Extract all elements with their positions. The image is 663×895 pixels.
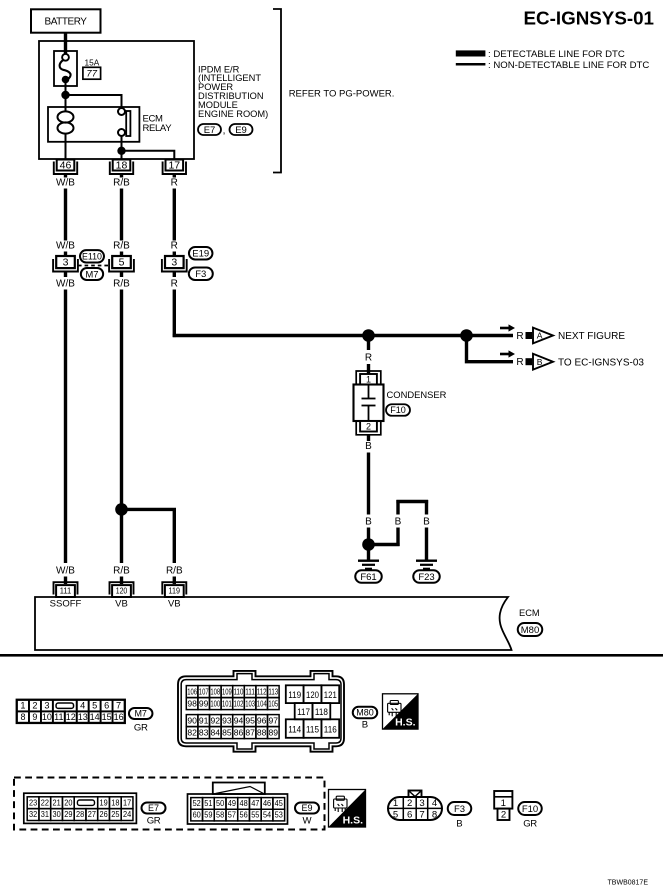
svg-text:B: B (423, 517, 430, 528)
svg-text:120: 120 (116, 586, 128, 596)
svg-text:106: 106 (187, 687, 197, 697)
svg-text:57: 57 (228, 810, 236, 820)
svg-text:17: 17 (123, 797, 131, 807)
svg-text:R/B: R/B (113, 566, 130, 577)
svg-text:25: 25 (111, 809, 119, 819)
svg-text:3: 3 (44, 700, 49, 710)
svg-text:54: 54 (263, 810, 271, 820)
svg-text:REFER TO PG-POWER.: REFER TO PG-POWER. (289, 89, 395, 100)
svg-text:98: 98 (187, 699, 197, 709)
svg-text:R/B: R/B (113, 279, 130, 290)
svg-text:F3: F3 (195, 269, 206, 280)
svg-text:77: 77 (86, 69, 97, 80)
svg-text:R: R (365, 353, 372, 364)
svg-text:GR: GR (134, 723, 148, 734)
svg-text:B: B (456, 819, 462, 830)
svg-text:9: 9 (32, 712, 37, 722)
svg-text:SSOFF: SSOFF (50, 599, 82, 610)
svg-text:27: 27 (88, 809, 96, 819)
svg-text:GR: GR (147, 816, 161, 827)
svg-text:16: 16 (114, 712, 124, 722)
svg-text:E9: E9 (235, 125, 247, 136)
svg-text:2: 2 (366, 421, 371, 431)
svg-text:M7: M7 (85, 269, 98, 280)
svg-text:3: 3 (63, 257, 69, 269)
svg-text:118: 118 (315, 707, 328, 717)
svg-text:115: 115 (306, 725, 319, 735)
svg-text:F3: F3 (454, 804, 465, 815)
svg-text:84: 84 (211, 728, 221, 738)
svg-text:H.S.: H.S. (343, 815, 364, 827)
svg-text:E9: E9 (301, 803, 312, 813)
svg-text:116: 116 (324, 725, 337, 735)
svg-text:R: R (516, 331, 523, 342)
svg-text:49: 49 (228, 798, 236, 808)
svg-text:111: 111 (245, 687, 255, 697)
svg-text:2: 2 (407, 798, 412, 809)
svg-text:1: 1 (393, 798, 398, 809)
svg-text:101: 101 (222, 699, 232, 709)
svg-text:R/B: R/B (113, 178, 130, 189)
svg-text:NEXT FIGURE: NEXT FIGURE (558, 331, 625, 342)
svg-text:W/B: W/B (56, 178, 75, 189)
svg-text:R: R (171, 178, 178, 189)
svg-text:12: 12 (66, 712, 76, 722)
svg-text:,: , (223, 126, 226, 137)
svg-text:6: 6 (104, 700, 109, 710)
svg-text:99: 99 (199, 699, 209, 709)
svg-text:F61: F61 (360, 572, 376, 583)
svg-text:1: 1 (501, 798, 506, 809)
svg-text:24: 24 (123, 809, 131, 819)
svg-text:11: 11 (54, 712, 63, 722)
svg-text:E19: E19 (192, 249, 209, 260)
svg-text:53: 53 (275, 810, 283, 820)
svg-text:82: 82 (187, 728, 197, 738)
svg-text:: DETECTABLE LINE FOR DTC: : DETECTABLE LINE FOR DTC (488, 49, 625, 60)
svg-text:95: 95 (245, 716, 255, 726)
svg-text:60: 60 (193, 810, 201, 820)
svg-text:32: 32 (29, 809, 37, 819)
svg-text:M7: M7 (134, 709, 147, 719)
svg-text:B: B (537, 357, 543, 367)
svg-text:EC-IGNSYS-01: EC-IGNSYS-01 (524, 8, 654, 29)
svg-text:50: 50 (216, 798, 224, 808)
svg-text:E7: E7 (204, 125, 216, 136)
svg-text:7: 7 (116, 700, 121, 710)
svg-text:3: 3 (419, 798, 424, 809)
svg-text:B: B (395, 517, 402, 528)
svg-text:119: 119 (169, 586, 181, 596)
svg-text:E110: E110 (82, 251, 102, 261)
svg-text:18: 18 (116, 160, 128, 172)
svg-text:R: R (171, 279, 178, 290)
svg-text:E7: E7 (148, 803, 159, 813)
svg-text:14: 14 (90, 712, 100, 722)
svg-text:102: 102 (234, 699, 244, 709)
svg-text:58: 58 (216, 810, 224, 820)
svg-text:112: 112 (257, 687, 267, 697)
svg-text:7: 7 (419, 810, 424, 821)
svg-text:3: 3 (171, 257, 177, 269)
svg-text:109: 109 (222, 687, 232, 697)
svg-text:6: 6 (407, 810, 412, 821)
svg-text:47: 47 (251, 798, 259, 808)
svg-text:GR: GR (523, 819, 537, 830)
svg-text:56: 56 (239, 810, 247, 820)
svg-text:91: 91 (199, 716, 209, 726)
svg-text:8: 8 (432, 810, 437, 821)
svg-text:46: 46 (263, 798, 271, 808)
svg-text:105: 105 (268, 699, 278, 709)
svg-text:R/B: R/B (166, 566, 183, 577)
svg-text:46: 46 (60, 160, 72, 172)
svg-text:15: 15 (102, 712, 112, 722)
svg-text:8: 8 (20, 712, 25, 722)
svg-text:55: 55 (251, 810, 259, 820)
svg-text:85: 85 (222, 728, 232, 738)
svg-text:5: 5 (92, 700, 97, 710)
svg-text:F10: F10 (390, 405, 406, 415)
svg-text:108: 108 (210, 687, 220, 697)
svg-text:: NON-DETECTABLE LINE FOR DTC: : NON-DETECTABLE LINE FOR DTC (488, 60, 649, 71)
svg-text:2: 2 (501, 810, 506, 821)
svg-text:CONDENSER: CONDENSER (387, 389, 447, 400)
svg-text:R/B: R/B (113, 241, 130, 252)
svg-text:W/B: W/B (56, 241, 75, 252)
svg-text:18: 18 (111, 797, 119, 807)
svg-text:R: R (516, 357, 523, 368)
svg-text:F23: F23 (418, 572, 434, 583)
svg-text:29: 29 (64, 809, 72, 819)
svg-text:1: 1 (20, 700, 25, 710)
svg-text:A: A (537, 331, 543, 341)
svg-text:W: W (302, 816, 312, 827)
svg-text:90: 90 (187, 716, 197, 726)
svg-text:30: 30 (52, 809, 60, 819)
svg-text:TO EC-IGNSYS-03: TO EC-IGNSYS-03 (558, 357, 644, 368)
svg-text:5: 5 (119, 257, 125, 269)
svg-text:100: 100 (210, 699, 220, 709)
svg-text:VB: VB (115, 599, 128, 610)
svg-text:45: 45 (275, 798, 283, 808)
svg-text:87: 87 (245, 728, 255, 738)
svg-text:W/B: W/B (56, 566, 75, 577)
svg-text:120: 120 (306, 690, 319, 700)
svg-text:RELAY: RELAY (143, 123, 173, 134)
svg-text:10: 10 (42, 712, 52, 722)
svg-text:51: 51 (204, 798, 212, 808)
svg-text:28: 28 (76, 809, 84, 819)
svg-text:R: R (171, 241, 178, 252)
svg-text:ECM: ECM (519, 608, 540, 618)
svg-text:W/B: W/B (56, 279, 75, 290)
svg-text:119: 119 (288, 690, 301, 700)
svg-text:ENGINE ROOM): ENGINE ROOM) (198, 109, 268, 119)
svg-text:83: 83 (199, 728, 209, 738)
svg-text:H.S.: H.S. (395, 717, 416, 729)
svg-text:89: 89 (269, 728, 279, 738)
svg-text:48: 48 (239, 798, 247, 808)
svg-text:59: 59 (204, 810, 212, 820)
svg-text:22: 22 (41, 797, 49, 807)
svg-text:VB: VB (168, 599, 181, 610)
svg-text:B: B (365, 517, 372, 528)
svg-text:19: 19 (99, 797, 107, 807)
svg-text:117: 117 (297, 707, 310, 717)
svg-text:15A: 15A (85, 57, 100, 67)
svg-text:4: 4 (80, 700, 85, 710)
svg-text:26: 26 (99, 809, 107, 819)
svg-text:B: B (365, 441, 372, 452)
svg-text:13: 13 (78, 712, 88, 722)
svg-text:52: 52 (193, 798, 201, 808)
svg-text:M80: M80 (521, 625, 539, 636)
svg-text:104: 104 (257, 699, 267, 709)
svg-text:111: 111 (60, 586, 72, 596)
svg-text:97: 97 (269, 716, 279, 726)
svg-text:TBWB0817E: TBWB0817E (608, 880, 649, 887)
svg-text:114: 114 (288, 725, 301, 735)
svg-text:23: 23 (29, 797, 37, 807)
svg-text:B: B (362, 720, 368, 731)
svg-text:5: 5 (393, 810, 398, 821)
svg-text:2: 2 (32, 700, 37, 710)
svg-text:121: 121 (324, 690, 337, 700)
svg-text:110: 110 (234, 687, 244, 697)
svg-text:113: 113 (268, 687, 278, 697)
svg-text:96: 96 (257, 716, 267, 726)
svg-text:88: 88 (257, 728, 267, 738)
svg-text:92: 92 (211, 716, 221, 726)
svg-text:31: 31 (41, 809, 49, 819)
svg-text:BATTERY: BATTERY (44, 17, 87, 28)
svg-text:1: 1 (366, 374, 371, 384)
svg-text:86: 86 (234, 728, 244, 738)
svg-text:21: 21 (52, 797, 60, 807)
svg-text:107: 107 (199, 687, 209, 697)
svg-text:94: 94 (234, 716, 244, 726)
svg-text:20: 20 (64, 797, 72, 807)
svg-text:4: 4 (432, 798, 438, 809)
svg-text:F10: F10 (522, 804, 538, 815)
svg-text:17: 17 (168, 160, 180, 172)
svg-text:M80: M80 (356, 708, 374, 718)
svg-text:93: 93 (222, 716, 232, 726)
svg-text:103: 103 (245, 699, 255, 709)
